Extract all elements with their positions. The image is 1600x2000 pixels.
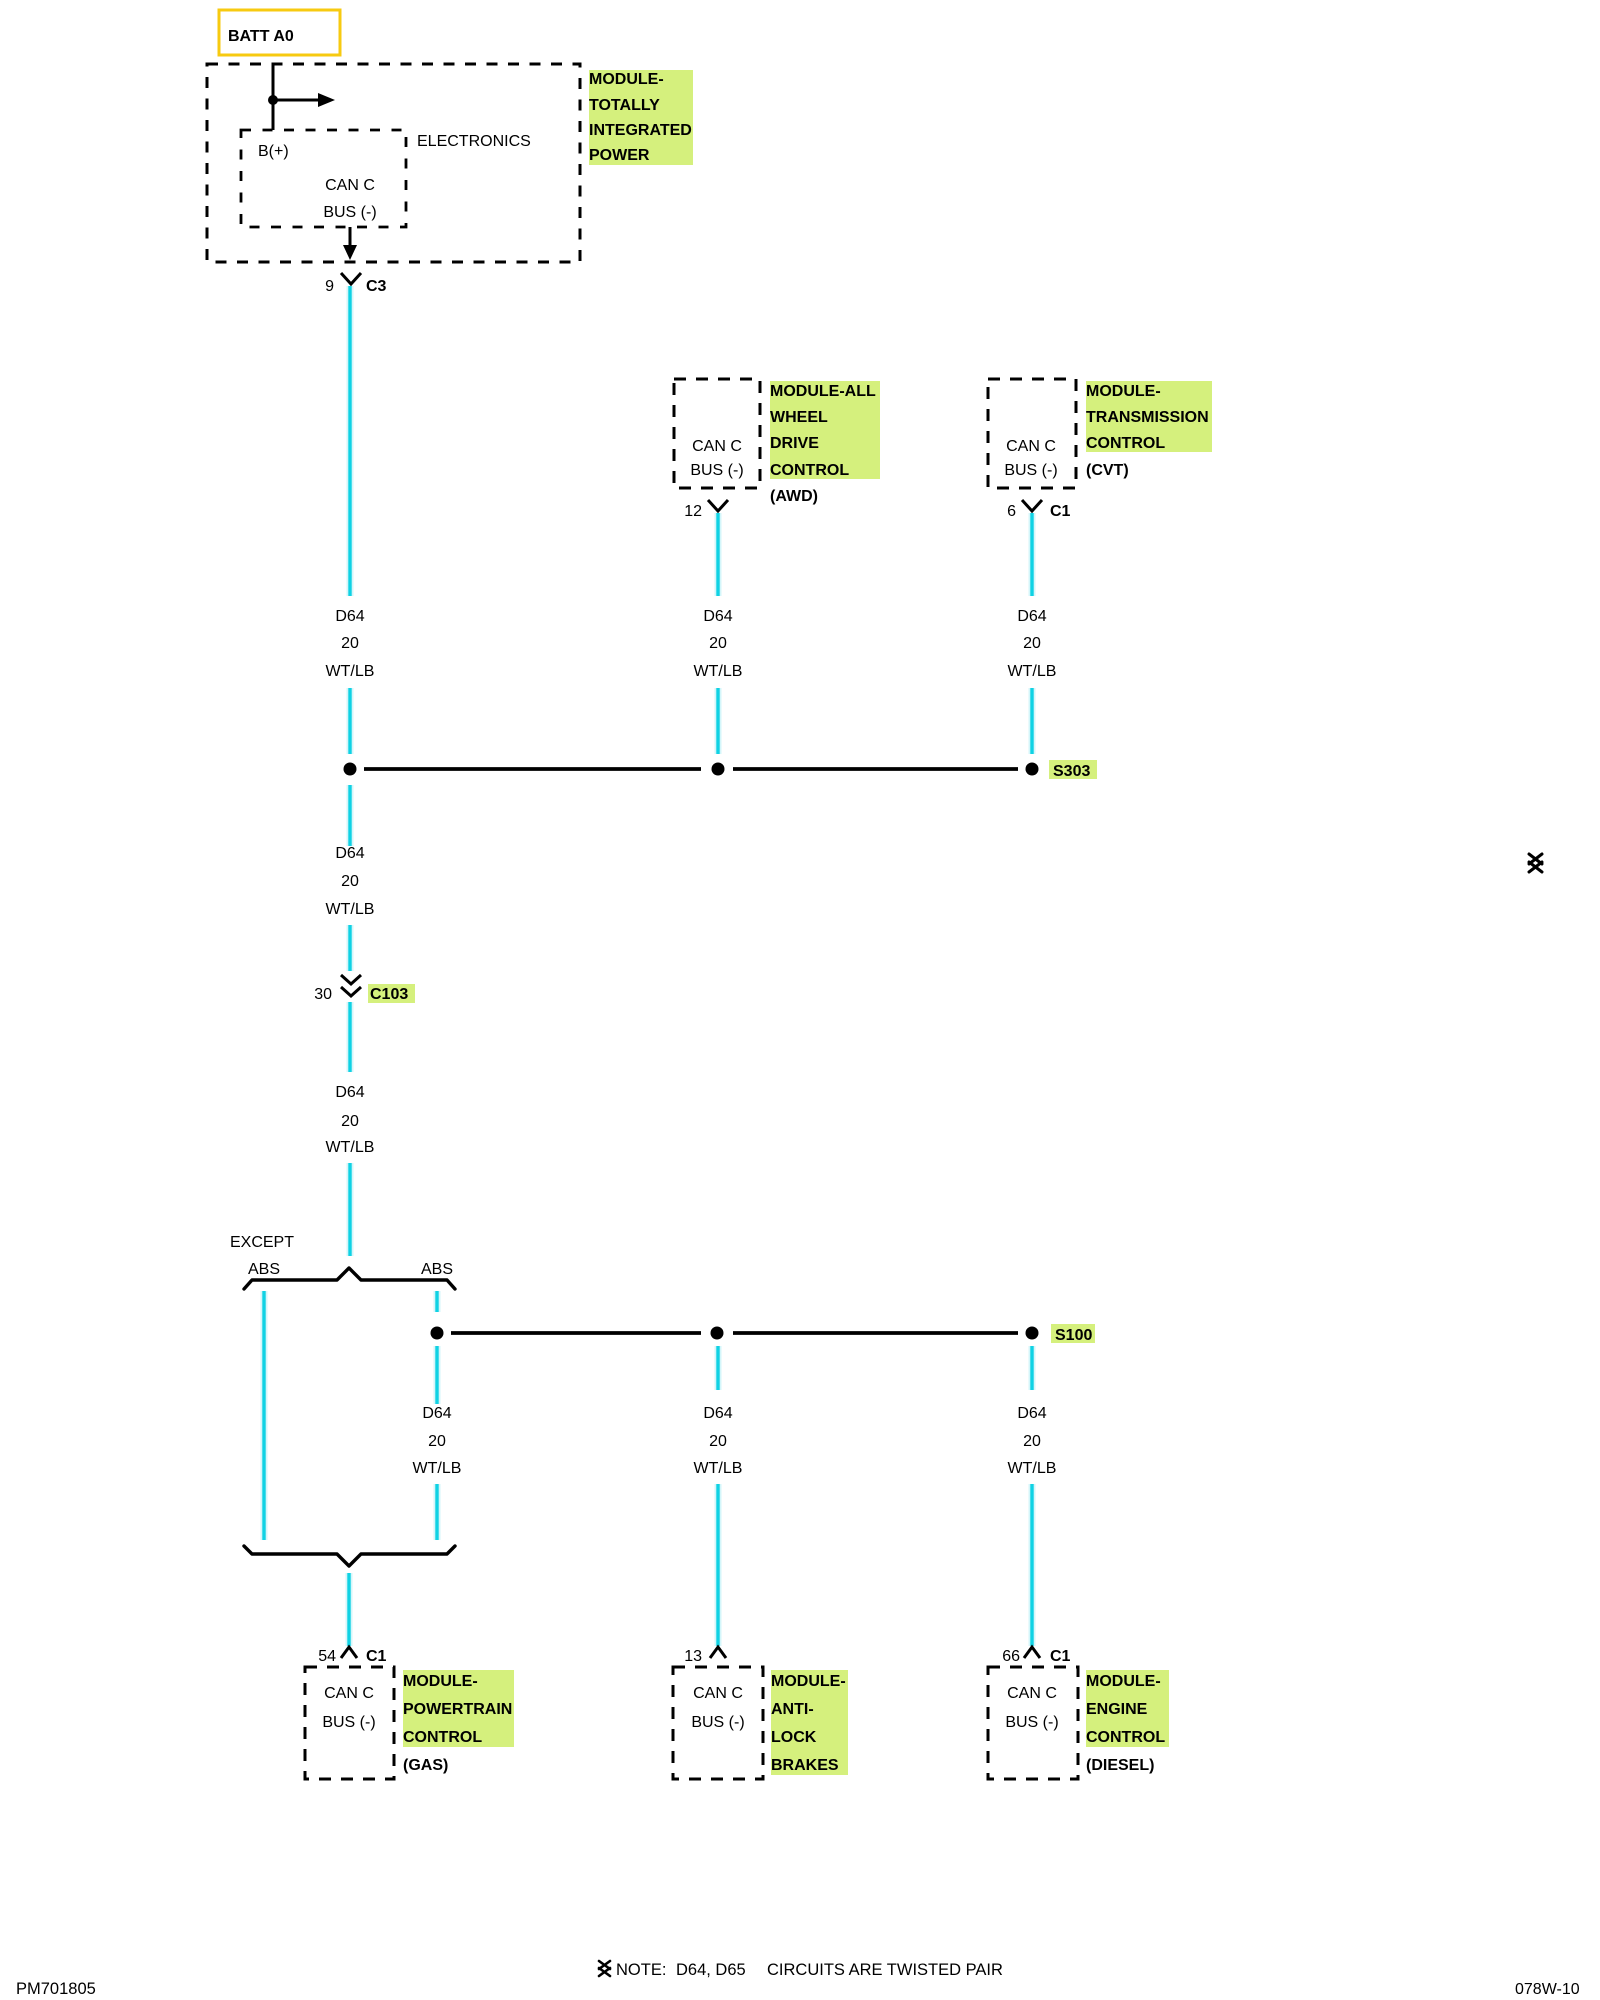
connector C1 pin 66 (Engine): [1002, 1647, 1070, 1665]
svg-text:PM701805: PM701805: [16, 1980, 96, 1998]
svg-text:WT/LB: WT/LB: [694, 663, 743, 680]
svg-text:20: 20: [341, 873, 359, 890]
svg-text:WT/LB: WT/LB: [1008, 1460, 1057, 1477]
TIPM internal block B(+) / CAN C BUS (-): [241, 130, 406, 227]
svg-text:078W-10: 078W-10: [1515, 1981, 1580, 1998]
svg-text:S100: S100: [1055, 1327, 1092, 1344]
module Anti-Lock Brakes outline: [673, 1667, 763, 1779]
svg-text:(DIESEL): (DIESEL): [1086, 1757, 1154, 1774]
svg-text:D64, D65: D64, D65: [676, 1961, 746, 1979]
svg-text:CAN C: CAN C: [325, 177, 375, 194]
wire D64 col2 upper segment: [715, 513, 722, 596]
svg-text:ABS: ABS: [248, 1261, 280, 1278]
label S303: [1049, 760, 1097, 780]
svg-text:TOTALLY: TOTALLY: [589, 97, 660, 114]
svg-text:D64: D64: [335, 845, 364, 862]
label D64 20 WT/LB right branch: [413, 1405, 462, 1477]
svg-text:BUS (-): BUS (-): [322, 1714, 375, 1731]
note text: [616, 1961, 1003, 1979]
svg-text:WT/LB: WT/LB: [326, 663, 375, 680]
label D64 20 WT/LB below C103: [326, 1084, 375, 1156]
module Powertrain Control outline: [305, 1667, 394, 1779]
svg-text:BUS (-): BUS (-): [691, 1714, 744, 1731]
svg-text:66: 66: [1002, 1648, 1020, 1665]
svg-text:CAN C: CAN C: [1007, 1685, 1057, 1702]
wire B(+) feed inside TIPM: [272, 64, 275, 130]
label MODULE-POWERTRAIN CONTROL (GAS): [403, 1670, 514, 1774]
svg-text:EXCEPT: EXCEPT: [230, 1234, 294, 1251]
wire D64 col1 below C103: [347, 1002, 354, 1072]
svg-text:C1: C1: [1050, 1648, 1071, 1665]
svg-text:C3: C3: [366, 278, 387, 295]
label D64 20 WT/LB below S303: [326, 845, 375, 918]
label D64 20 WT/LB col2: [694, 608, 743, 680]
svg-text:CONTROL: CONTROL: [1086, 1729, 1165, 1746]
svg-text:54: 54: [318, 1648, 336, 1665]
svg-text:20: 20: [709, 1433, 727, 1450]
svg-text:MODULE-: MODULE-: [771, 1673, 846, 1690]
wire right branch (ABS) upper: [434, 1291, 441, 1312]
svg-text:WHEEL: WHEEL: [770, 409, 828, 426]
connector pin 12 (AWD): [684, 500, 728, 520]
svg-text:DRIVE: DRIVE: [770, 435, 819, 452]
connector C1 pin 54 (Powertrain): [318, 1647, 386, 1665]
svg-text:BUS (-): BUS (-): [1004, 462, 1057, 479]
svg-text:D64: D64: [703, 1405, 732, 1422]
svg-text:WT/LB: WT/LB: [694, 1460, 743, 1477]
svg-text:WT/LB: WT/LB: [1008, 663, 1057, 680]
label D64 20 WT/LB col2 lower: [694, 1405, 743, 1477]
wire D64 col3 to Engine module: [1029, 1484, 1036, 1646]
svg-text:CONTROL: CONTROL: [1086, 435, 1165, 452]
wire CAN C BUS (-) output arrow: [343, 227, 357, 260]
svg-text:CAN C: CAN C: [693, 1685, 743, 1702]
svg-text:D64: D64: [335, 608, 364, 625]
wire D64 col3 to splice S303: [1029, 688, 1036, 754]
svg-text:30: 30: [314, 986, 332, 1003]
svg-text:20: 20: [1023, 1433, 1041, 1450]
svg-text:BATT A0: BATT A0: [228, 28, 294, 45]
wire right branch to merge brace: [434, 1484, 441, 1540]
twisted pair marker (page edge): [1529, 854, 1542, 872]
connector C3 pin 9: [325, 273, 386, 295]
svg-text:(GAS): (GAS): [403, 1757, 448, 1774]
wire D64 col2 below S100: [715, 1346, 722, 1390]
svg-text:ABS: ABS: [421, 1261, 453, 1278]
svg-text:20: 20: [1023, 635, 1041, 652]
svg-text:BUS (-): BUS (-): [690, 462, 743, 479]
svg-text:12: 12: [684, 503, 702, 520]
label MODULE-TOTALLY INTEGRATED POWER: [589, 70, 693, 165]
svg-text:MODULE-: MODULE-: [1086, 383, 1161, 400]
label S100: [1051, 1324, 1095, 1344]
wire D64 col3 upper segment: [1029, 513, 1036, 596]
label MODULE-ENGINE CONTROL (DIESEL): [1086, 1670, 1169, 1774]
svg-text:20: 20: [428, 1433, 446, 1450]
svg-text:MODULE-: MODULE-: [589, 71, 664, 88]
junction dot on B(+) feed: [268, 95, 278, 105]
svg-text:D64: D64: [335, 1084, 364, 1101]
svg-text:(CVT): (CVT): [1086, 462, 1129, 479]
svg-text:CIRCUITS ARE TWISTED PAIR: CIRCUITS ARE TWISTED PAIR: [767, 1961, 1003, 1979]
svg-text:CONTROL: CONTROL: [403, 1729, 482, 1746]
svg-text:POWERTRAIN: POWERTRAIN: [403, 1701, 512, 1718]
wire right branch below S100 dot: [434, 1346, 441, 1404]
svg-text:C103: C103: [370, 986, 408, 1003]
wire D64 col2 to ABS module: [715, 1484, 722, 1646]
arrow to TIPM internal loads: [273, 93, 335, 107]
svg-text:TRANSMISSION: TRANSMISSION: [1086, 409, 1209, 426]
splice S100 bus line: [451, 1331, 1018, 1335]
label D64 20 WT/LB col1: [326, 608, 375, 680]
brace branch merge: [244, 1546, 455, 1566]
label D64 20 WT/LB col3: [1008, 608, 1057, 680]
footer right 078W-10: [1515, 1981, 1580, 1998]
svg-text:B(+): B(+): [258, 143, 289, 160]
svg-text:6: 6: [1007, 503, 1016, 520]
svg-text:ELECTRONICS: ELECTRONICS: [417, 133, 531, 150]
svg-text:ENGINE: ENGINE: [1086, 1701, 1148, 1718]
svg-text:BUS (-): BUS (-): [1005, 1714, 1058, 1731]
wire merged to Powertrain module: [346, 1573, 353, 1646]
label ABS (right branch): [421, 1261, 453, 1278]
svg-text:WT/LB: WT/LB: [413, 1460, 462, 1477]
svg-text:D64: D64: [422, 1405, 451, 1422]
svg-text:CAN C: CAN C: [1006, 438, 1056, 455]
svg-text:C1: C1: [1050, 503, 1071, 520]
svg-text:POWER: POWER: [589, 147, 650, 164]
svg-text:CAN C: CAN C: [324, 1685, 374, 1702]
svg-text:WT/LB: WT/LB: [326, 1139, 375, 1156]
svg-text:INTEGRATED: INTEGRATED: [589, 122, 692, 139]
svg-text:WT/LB: WT/LB: [326, 901, 375, 918]
svg-text:20: 20: [341, 1113, 359, 1130]
wire left branch (EXCEPT ABS): [261, 1291, 268, 1540]
splice S303 junction dots: [344, 763, 1039, 776]
svg-text:BUS (-): BUS (-): [323, 204, 376, 221]
label ELECTRONICS: [417, 133, 531, 150]
svg-text:C1: C1: [366, 1648, 387, 1665]
svg-text:MODULE-ALL: MODULE-ALL: [770, 383, 876, 400]
svg-text:CONTROL: CONTROL: [770, 462, 849, 479]
connector C1 pin 6 (Transmission): [1007, 500, 1070, 520]
svg-text:D64: D64: [1017, 608, 1046, 625]
brace branch split: [244, 1268, 455, 1289]
label MODULE-ALL WHEEL DRIVE CONTROL (AWD): [770, 381, 880, 505]
module U1 TIPM outline: [207, 64, 580, 262]
label MODULE-TRANSMISSION CONTROL (CVT): [1086, 381, 1212, 479]
svg-text:D64: D64: [703, 608, 732, 625]
splice S100 junction dots: [431, 1327, 1039, 1340]
splice S303 bus line: [364, 767, 1018, 771]
svg-text:MODULE-: MODULE-: [403, 1673, 478, 1690]
label EXCEPT ABS: [230, 1234, 294, 1278]
wire D64 col3 below S100: [1029, 1346, 1036, 1390]
svg-text:20: 20: [709, 635, 727, 652]
wire D64 col1 below S303: [347, 785, 354, 846]
module All Wheel Drive Control outline: [674, 379, 760, 488]
wire D64 col1 to splice S303: [347, 688, 354, 754]
svg-text:(AWD): (AWD): [770, 488, 818, 505]
connector BATT A0 box: [219, 10, 340, 55]
svg-text:CAN C: CAN C: [692, 438, 742, 455]
wire D64 col1 to C103: [347, 925, 354, 971]
svg-text:LOCK: LOCK: [771, 1729, 817, 1746]
svg-text:S303: S303: [1053, 763, 1090, 780]
svg-text:ANTI-: ANTI-: [771, 1701, 814, 1718]
footer left PM701805: [16, 1980, 96, 1998]
label MODULE-ANTI-LOCK BRAKES: [771, 1670, 848, 1775]
svg-text:20: 20: [341, 635, 359, 652]
svg-text:9: 9: [325, 278, 334, 295]
svg-text:D64: D64: [1017, 1405, 1046, 1422]
svg-text:13: 13: [684, 1648, 702, 1665]
module Transmission Control outline: [988, 379, 1076, 488]
connector C103 pin 30: [314, 975, 415, 1003]
connector pin 13 (ABS): [684, 1647, 726, 1665]
svg-text:NOTE:: NOTE:: [616, 1961, 666, 1979]
wire D64 col1 upper segment: [347, 286, 354, 596]
twisted pair marker (note): [599, 1961, 610, 1976]
svg-text:BRAKES: BRAKES: [771, 1757, 839, 1774]
label D64 20 WT/LB col3 lower: [1008, 1405, 1057, 1477]
wire D64 col1 to branch brace: [347, 1163, 354, 1256]
wire D64 col2 to splice S303: [715, 688, 722, 754]
module Engine Control outline: [988, 1667, 1078, 1779]
svg-text:MODULE-: MODULE-: [1086, 1673, 1161, 1690]
